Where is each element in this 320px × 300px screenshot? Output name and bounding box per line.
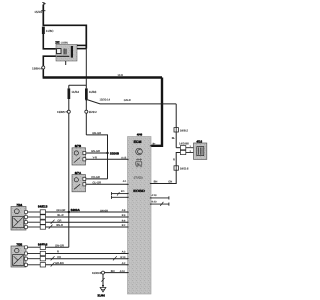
- wire bus to fuses branch: [69, 78, 87, 89]
- wire GN-R to 14/3:B2: [86, 98, 176, 104]
- svg-text:19/B5:7: 19/B5:7: [57, 110, 67, 114]
- svg-text:GN: GN: [168, 181, 172, 184]
- svg-text:19/29:8: 19/29:8: [92, 271, 102, 275]
- junction S200B: [106, 151, 120, 155]
- wire drop to 14/3:B2: [175, 104, 177, 128]
- wire 8/7B pin2 to ECM: [86, 157, 128, 160]
- wire 7/34 w4 to ECM: [27, 224, 127, 229]
- power feed flag 15: [42, 2, 46, 5]
- wire 15-feed vertical: [41, 5, 45, 26]
- ground 31/46: [97, 278, 105, 298]
- switch module 7/34: [11, 203, 27, 230]
- svg-text:BL-R: BL-R: [57, 214, 63, 217]
- svg-text:2/2: 2/2: [55, 41, 60, 45]
- svg-text:11/B4: 11/B4: [71, 90, 79, 94]
- ground wire from ECM: [92, 270, 128, 287]
- svg-text:ECM: ECM: [134, 140, 142, 144]
- svg-text:BN-R: BN-R: [56, 224, 63, 227]
- ECM shielded stub right 2: [151, 200, 169, 206]
- svg-text:4/16: 4/16: [196, 140, 202, 144]
- connector 19/B4:4: [32, 66, 45, 70]
- svg-text:EOBD: EOBD: [133, 189, 145, 193]
- svg-text:GR: GR: [57, 219, 61, 222]
- wire GN-GR jog to S200B: [86, 132, 107, 179]
- svg-text:VO: VO: [57, 256, 61, 259]
- svg-text:VO-GR: VO-GR: [91, 176, 100, 179]
- svg-text:GL-GR: GL-GR: [93, 181, 102, 184]
- svg-text:Y-R: Y-R: [93, 157, 97, 160]
- svg-text:GR-BN: GR-BN: [55, 262, 64, 265]
- svg-text:11/6C: 11/6C: [46, 29, 55, 33]
- svg-text:15/20:14: 15/20:14: [100, 98, 111, 101]
- svg-text:S200A: S200A: [71, 208, 81, 212]
- svg-text:R: R: [57, 251, 59, 254]
- svg-text:9/29:2: 9/29:2: [89, 110, 97, 114]
- wire S200B to sensor 8/7B: [86, 150, 108, 153]
- thick wire bus to ECM supply: [151, 78, 162, 146]
- svg-text:A:10: A:10: [120, 270, 126, 273]
- svg-text:GN-GR: GN-GR: [92, 132, 101, 135]
- wire fuse 11/B3 down: [85, 99, 87, 135]
- ECM 4/46: [128, 132, 152, 294]
- svg-text:GN-GR: GN-GR: [91, 150, 100, 153]
- svg-text:A:19: A:19: [152, 194, 158, 197]
- svg-text:S200B: S200B: [110, 151, 120, 155]
- svg-text:4/46: 4/46: [137, 132, 143, 136]
- svg-text:R: R: [173, 159, 175, 162]
- svg-text:54/B:2: 54/B:2: [180, 128, 189, 132]
- svg-text:BN: BN: [154, 181, 158, 184]
- svg-text:11/B3: 11/B3: [89, 90, 97, 94]
- wire S200B branch to 8/7A: [86, 176, 108, 179]
- svg-text:16 R: 16 R: [118, 74, 124, 77]
- svg-text:14/3:B8: 14/3:B8: [179, 142, 189, 146]
- wire relay output down to bus: [85, 49, 87, 78]
- svg-text:7/34: 7/34: [16, 203, 22, 207]
- wire 7/35 w3 to ECM: [27, 256, 127, 261]
- connector 19/B5:7: [57, 110, 70, 114]
- sensor 8/7B: [72, 144, 86, 165]
- svg-text:(T/D): (T/D): [134, 176, 143, 179]
- wire 7/34 w3 to ECM: [27, 219, 127, 224]
- connector 14/3:B8 pins: [176, 142, 193, 155]
- compressor clutch 4/16: [194, 140, 207, 160]
- wire 8/7A pin2 to ECM: [86, 180, 128, 185]
- svg-text:15/19: 15/19: [34, 10, 42, 14]
- connector 54/E13: [38, 205, 48, 230]
- junction node: [85, 98, 87, 100]
- svg-text:GN-GR: GN-GR: [100, 209, 108, 212]
- svg-text:54/G:6: 54/G:6: [180, 167, 189, 171]
- svg-text:7/35: 7/35: [16, 243, 22, 247]
- svg-text:19/B4:4: 19/B4:4: [32, 66, 42, 70]
- connector 54/G:6: [174, 166, 189, 171]
- svg-text:(115B): (115B): [61, 42, 68, 45]
- main supply bus: [43, 74, 162, 77]
- wire 7/35 w1 to feed: [27, 244, 69, 247]
- svg-text:8/7B: 8/7B: [75, 144, 82, 148]
- connector 9/29:2: [85, 110, 97, 114]
- wire return to ECM: [151, 170, 176, 183]
- svg-text:8/7A: 8/7A: [75, 171, 82, 175]
- wire 7/35 w4 to ECM: [27, 262, 127, 267]
- ECM shielded stubs left: [112, 190, 128, 199]
- connector 54/E16: [38, 243, 48, 267]
- wire return from clutch: [176, 153, 180, 166]
- junction S200A: [68, 208, 81, 213]
- wire relay pin 85 to bus: [43, 56, 56, 77]
- svg-text:54/E13: 54/E13: [38, 205, 48, 209]
- sensor 8/7A: [72, 171, 86, 192]
- svg-text:B:20: B:20: [152, 200, 158, 203]
- svg-text:B:10: B:10: [120, 256, 126, 259]
- svg-text:GN-GR: GN-GR: [56, 209, 65, 212]
- svg-text:GN-GR: GN-GR: [55, 244, 64, 247]
- svg-text:A:15: A:15: [121, 157, 127, 160]
- wire fuse to relay pin 86: [43, 34, 56, 49]
- wire 7/34 w1 to ECM: [27, 209, 127, 212]
- svg-text:31/46: 31/46: [97, 294, 105, 298]
- wire top horizontal to relay drop: [43, 24, 87, 26]
- wire 7/35 w2 to ECM: [27, 251, 127, 254]
- ECM pin ticks: [127, 146, 152, 273]
- fuse 11/B3: [85, 88, 97, 99]
- wire 7/34 w2 to ECM: [27, 214, 127, 217]
- ECM shielded stub right 1: [151, 194, 169, 199]
- switch module 7/35: [11, 243, 27, 268]
- svg-text:BL: BL: [172, 137, 176, 140]
- fuse 11/6C: [42, 27, 55, 34]
- connector 54/B:2: [174, 128, 189, 133]
- fuse 11/B4: [68, 88, 80, 99]
- svg-text:BN: BN: [111, 270, 115, 273]
- wire relay pin 30 staircase: [77, 25, 86, 49]
- wire fuse 11/B4 down long run: [68, 99, 70, 247]
- wire BL down: [172, 132, 176, 148]
- svg-text:GN-R: GN-R: [124, 99, 131, 102]
- relay 2/2: [55, 41, 77, 65]
